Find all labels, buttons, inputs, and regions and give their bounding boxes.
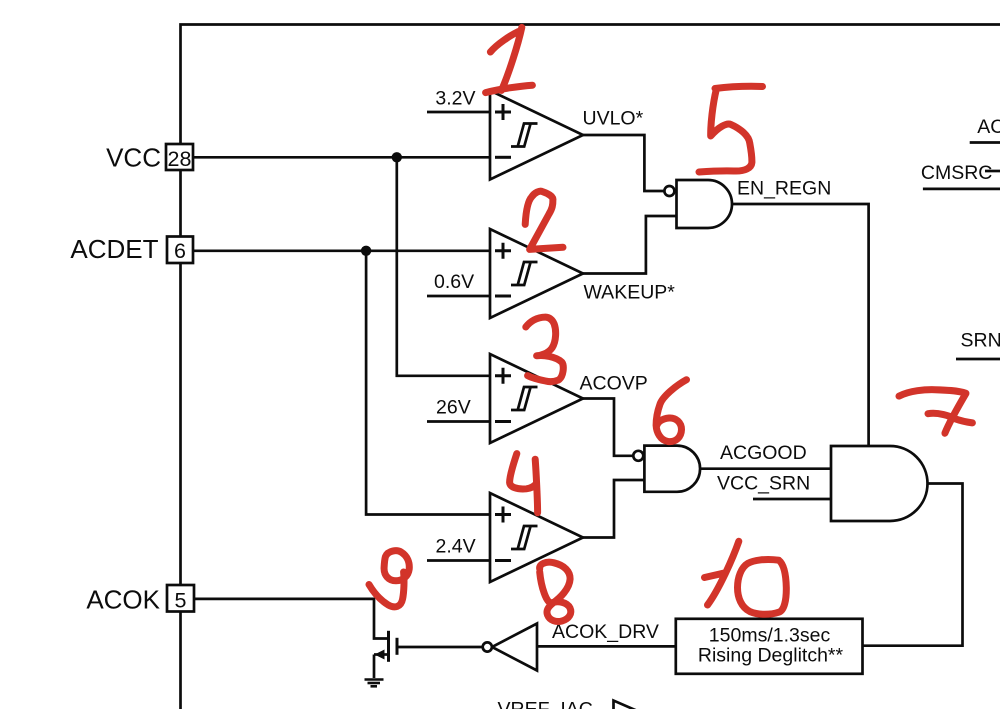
svg-text:Rising Deglitch**: Rising Deglitch** (698, 645, 844, 667)
svg-text:VREF_IAC: VREF_IAC (498, 699, 593, 709)
wire stub after CMSRC (985, 170, 1000, 173)
wire ACDET branch down to comparator U4 + input (366, 251, 490, 515)
svg-text:SRN: SRN (961, 330, 1000, 352)
red annotation 8 (540, 562, 571, 621)
wire stub under AC label (970, 141, 1000, 144)
3.2V reference wire (427, 111, 490, 114)
wire VCC pin to comparator U1 (193, 156, 490, 159)
svg-text:AC: AC (977, 116, 1000, 138)
0.6V reference wire (427, 295, 490, 298)
svg-text:6: 6 (174, 239, 186, 263)
red annotation 2 (525, 191, 563, 249)
wire ACDET pin to comparator U2 (193, 249, 490, 252)
svg-text:UVLO*: UVLO* (583, 108, 644, 130)
deglitch block (676, 619, 863, 674)
wire ACGOOD gate U6 output to gate U7 (700, 467, 831, 470)
node junction dot on ACDET (361, 246, 371, 256)
26V reference wire (427, 420, 490, 423)
svg-text:ACOK: ACOK (86, 585, 160, 615)
red annotation 7 (899, 390, 972, 434)
red annotation 4 (510, 454, 538, 513)
svg-text:CMSRC: CMSRC (921, 162, 993, 184)
wire UVLO* output to gate U5 (583, 135, 664, 191)
red annotation 1 (486, 27, 533, 92)
gate U5 (AND with inverted input) (664, 180, 732, 228)
2.4V reference wire (427, 559, 490, 562)
gate U6 (AND with inverted input) (633, 446, 700, 492)
comparator U1 (UVLO) (490, 91, 583, 180)
wire stub under CMSRC (923, 188, 1000, 191)
red annotation 9 (369, 551, 409, 607)
red annotation 6 (656, 380, 686, 442)
wire stub under SRN (956, 358, 1000, 361)
wire gate U7 output to deglitch block (863, 484, 963, 646)
svg-text:2.4V: 2.4V (436, 536, 476, 558)
wire inverter U8 output to MOSFET gate (399, 646, 483, 649)
wire EN_REGN to gate U7 (732, 204, 869, 446)
pin ACDET 6 (70, 234, 193, 264)
wire deglitch block to inverter U8 (537, 645, 676, 648)
svg-text:150ms/1.3sec: 150ms/1.3sec (709, 625, 831, 647)
red annotation 5 (699, 86, 763, 172)
wire VCC branch down to comparator U3 + input (397, 157, 490, 375)
svg-text:26V: 26V (436, 397, 471, 419)
wire ACOK pin to MOSFET drain (194, 599, 387, 639)
pin ACOK 5 (86, 585, 194, 615)
svg-text:VCC_SRN: VCC_SRN (717, 473, 810, 495)
svg-text:28: 28 (168, 147, 192, 171)
svg-text:VCC: VCC (106, 143, 161, 173)
transistor Q1 (MOSFET) (374, 631, 397, 678)
inverter U8 (483, 624, 537, 671)
svg-text:ACDET: ACDET (70, 234, 158, 264)
comparator U2 (WAKEUP) (490, 229, 583, 318)
red annotation 10 (705, 541, 787, 614)
wire ACOVP output to gate U6 (583, 399, 633, 456)
node junction dot on VCC (392, 152, 402, 162)
buffer triangle at bottom (clipped) (614, 701, 642, 709)
svg-text:ACGOOD: ACGOOD (720, 442, 807, 464)
comparator U3 (ACOVP) (490, 354, 583, 443)
svg-text:0.6V: 0.6V (434, 271, 474, 293)
comparator U4 (2.4V) (490, 493, 583, 582)
red annotations (369, 27, 972, 621)
svg-text:WAKEUP*: WAKEUP* (584, 282, 676, 304)
svg-text:ACOVP: ACOVP (580, 373, 648, 395)
svg-text:5: 5 (175, 589, 187, 613)
svg-text:EN_REGN: EN_REGN (737, 178, 831, 200)
wire comparator U4 output to gate U6 (583, 480, 644, 538)
svg-text:3.2V: 3.2V (435, 88, 475, 110)
wire WAKEUP* output to gate U5 (583, 216, 677, 274)
VCC_SRN input stub (753, 498, 831, 501)
IC border (181, 25, 1000, 709)
svg-text:ACOK_DRV: ACOK_DRV (552, 621, 659, 643)
ground (365, 680, 384, 687)
red annotation 3 (526, 317, 563, 382)
pin VCC 28 (106, 143, 193, 173)
gate U7 (3-input AND) (831, 446, 928, 521)
